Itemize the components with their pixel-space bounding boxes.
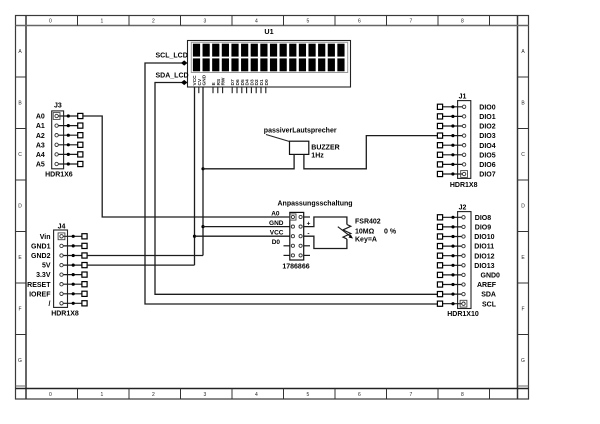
buzzer (passiverLautsprecher): [264, 127, 340, 159]
svg-text:HDR1X8: HDR1X8: [450, 182, 478, 189]
svg-text:Vin: Vin: [40, 234, 51, 241]
svg-text:A0: A0: [271, 210, 280, 217]
svg-text:F: F: [521, 307, 524, 313]
svg-text:5: 5: [306, 19, 309, 25]
svg-text:3: 3: [203, 19, 206, 25]
wire LCD GND vertical net: [202, 87, 204, 256]
svg-text:7: 7: [409, 392, 412, 398]
svg-text:1Hz: 1Hz: [311, 152, 324, 159]
svg-text:SCL: SCL: [482, 301, 497, 308]
svg-text:BUZZER: BUZZER: [311, 144, 339, 151]
svg-text:DIO5: DIO5: [479, 152, 495, 159]
svg-text:3: 3: [203, 392, 206, 398]
wire module + to FSR top: [304, 217, 347, 227]
svg-text:A0: A0: [36, 114, 45, 121]
svg-text:DIO7: DIO7: [479, 172, 495, 179]
svg-text:8: 8: [461, 392, 464, 398]
svg-text:3.3V: 3.3V: [36, 272, 51, 279]
svg-text:SCL_LCD: SCL_LCD: [156, 53, 188, 60]
svg-text:1786866: 1786866: [282, 263, 309, 270]
svg-text:G: G: [18, 358, 22, 364]
svg-text:5: 5: [306, 392, 309, 398]
svg-text:GND: GND: [202, 74, 208, 85]
svg-text:G: G: [521, 358, 525, 364]
svg-text:DIO10: DIO10: [474, 234, 494, 241]
svg-text:2: 2: [152, 392, 155, 398]
wire SDA_LCD: LCD SDA pin down to J2 SDA: [155, 83, 438, 295]
junction: GND to adapter: [201, 225, 204, 228]
svg-text:DIO8: DIO8: [475, 215, 491, 222]
wire FSR bottom to module -: [304, 236, 347, 248]
FSR labels: [355, 219, 397, 244]
svg-text:7: 7: [409, 19, 412, 25]
resistor FSR402 zigzag: [343, 225, 351, 240]
svg-text:0: 0: [49, 392, 52, 398]
svg-text:1: 1: [100, 19, 103, 25]
svg-text:A2: A2: [36, 133, 45, 140]
svg-text:6: 6: [358, 392, 361, 398]
svg-text:Anpassungsschaltung: Anpassungsschaltung: [278, 201, 353, 208]
svg-text:Key=A: Key=A: [355, 236, 377, 243]
svg-text:10MΩ: 10MΩ: [355, 228, 375, 235]
svg-text:4: 4: [255, 392, 258, 398]
svg-text:DIO0: DIO0: [479, 104, 495, 111]
module left pin stubs D0 / pin5: [284, 245, 290, 247]
svg-text:HDR1X10: HDR1X10: [447, 311, 479, 318]
svg-text:GND0: GND0: [481, 273, 501, 280]
svg-text:VCC: VCC: [270, 230, 284, 237]
svg-text:0 %: 0 %: [384, 228, 397, 235]
connector J4 HDR1X8: [27, 223, 87, 317]
svg-text:A3: A3: [36, 142, 45, 149]
svg-text:8: 8: [461, 19, 464, 25]
svg-text:DIO2: DIO2: [479, 124, 495, 131]
svg-text:5V: 5V: [42, 263, 51, 270]
junction: GND to buzzer: [201, 167, 204, 170]
svg-text:U1: U1: [264, 27, 273, 36]
svg-text:D0: D0: [272, 239, 281, 246]
LCD module U1: [188, 27, 351, 87]
svg-text:SDA_LCD: SDA_LCD: [156, 72, 189, 79]
wire SCL_LCD: LCD SCL pin down to J2 SCL: [145, 63, 438, 304]
wire GND2 to LCD GND net: [87, 255, 203, 257]
wire VCC to adapter board pin VCC: [195, 235, 290, 237]
svg-text:DIO6: DIO6: [479, 162, 495, 169]
wire buzzer right lead to J1 DIO3: [304, 136, 438, 169]
svg-text:C: C: [521, 152, 525, 158]
svg-text:SDA: SDA: [481, 292, 496, 299]
svg-text:DIO1: DIO1: [479, 114, 495, 121]
svg-text:GND: GND: [269, 220, 284, 227]
svg-text:DIO11: DIO11: [474, 244, 494, 251]
svg-text:DIO3: DIO3: [479, 133, 495, 140]
svg-text:D: D: [521, 204, 525, 210]
module right pin stubs: [304, 216, 310, 218]
wire buzzer left lead to GND: [203, 154, 294, 168]
svg-text:passiverLautsprecher: passiverLautsprecher: [264, 127, 337, 134]
FSR wiper arrow: [338, 227, 353, 239]
svg-text:IOREF: IOREF: [29, 291, 51, 298]
junction: VCC to adapter: [193, 235, 196, 238]
wire A0 from J3 to adapter board pin A0: [83, 116, 290, 217]
svg-text:DIO9: DIO9: [475, 225, 491, 232]
svg-text:J1: J1: [459, 93, 467, 100]
pin arrow on LCD SDA pin: [181, 80, 187, 85]
svg-text:HDR1X6: HDR1X6: [45, 171, 73, 178]
svg-text:A1: A1: [36, 123, 45, 130]
svg-text:D: D: [18, 204, 22, 210]
svg-text:A4: A4: [36, 152, 45, 159]
svg-text:GND1: GND1: [31, 244, 51, 251]
svg-text:HDR1X8: HDR1X8: [51, 311, 79, 318]
svg-text:F: F: [18, 307, 21, 313]
svg-text:AREF: AREF: [477, 282, 497, 289]
U1 pin stubs: [199, 87, 266, 93]
svg-text:J2: J2: [459, 204, 467, 211]
svg-text:DIO12: DIO12: [474, 253, 494, 260]
svg-text:6: 6: [358, 19, 361, 25]
svg-text:2: 2: [152, 19, 155, 25]
wire LCD VCC vertical net: [194, 87, 196, 265]
connector J1 HDR1X8: [437, 93, 495, 189]
svg-text:A5: A5: [36, 162, 45, 169]
svg-text:/: /: [49, 301, 51, 308]
svg-text:GND2: GND2: [31, 253, 51, 260]
wire GND to adapter board pin GND: [203, 226, 290, 228]
svg-text:DIO13: DIO13: [474, 263, 494, 270]
connector J2 HDR1X10: [437, 204, 500, 317]
svg-text:0: 0: [49, 19, 52, 25]
svg-text:RW: RW: [221, 77, 227, 85]
svg-text:J4: J4: [58, 223, 66, 230]
wire 5V to LCD VCC net: [87, 264, 194, 266]
svg-text:DIO4: DIO4: [479, 143, 495, 150]
svg-text:J3: J3: [54, 103, 62, 110]
svg-text:FSR402: FSR402: [355, 219, 381, 226]
pin arrow on LCD SCL pin: [181, 60, 187, 65]
connector J3 HDR1X6: [36, 103, 83, 179]
svg-text:1: 1: [100, 392, 103, 398]
svg-text:4: 4: [255, 19, 258, 25]
svg-text:C: C: [18, 152, 22, 158]
svg-text:RESET: RESET: [27, 282, 51, 289]
svg-text:D0: D0: [264, 79, 270, 85]
